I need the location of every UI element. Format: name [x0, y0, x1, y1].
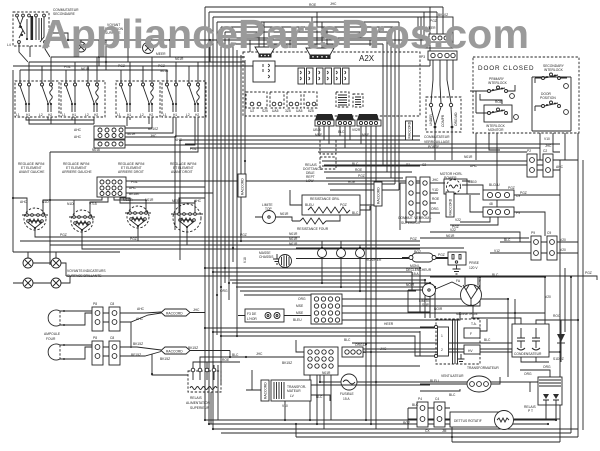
- svg-text:POSITION: POSITION: [540, 96, 556, 100]
- svg-text:L2: L2: [85, 113, 89, 117]
- svg-text:RGZ: RGZ: [403, 421, 410, 425]
- svg-text:BK15Z: BK15Z: [160, 357, 170, 361]
- wires from C9 P9: [450, 195, 560, 236]
- connector P3: [421, 51, 457, 60]
- svg-text:DETTUS ROTATIF: DETTUS ROTATIF: [454, 419, 482, 423]
- wire bus y62: [29, 61, 245, 63]
- svg-text:RACCORD: RACCORD: [264, 382, 268, 399]
- wires indicator lamps: [13, 252, 120, 283]
- svg-text:BLC: BLC: [344, 338, 351, 342]
- connector J2: [97, 177, 126, 197]
- ground chassis: [273, 254, 281, 264]
- svg-text:NOIR: NOIR: [434, 307, 443, 311]
- connector P2: [527, 149, 537, 177]
- svg-text:P2: P2: [527, 149, 531, 153]
- relay RELAIS PT: [524, 377, 562, 413]
- connector J1: [94, 126, 125, 148]
- svg-text:N01R: N01R: [289, 237, 298, 241]
- svg-text:N01R: N01R: [289, 232, 298, 236]
- svg-text:BLC: BLC: [484, 338, 491, 342]
- svg-text:C9: C9: [547, 231, 551, 235]
- svg-text:CONDENSATEUR: CONDENSATEUR: [514, 352, 542, 356]
- wires condensateur diode: [471, 318, 578, 362]
- svg-text:JHC: JHC: [256, 352, 263, 356]
- svg-text:T.A.: T.A.: [471, 322, 477, 326]
- svg-text:N01R: N01R: [322, 371, 331, 375]
- svg-text:RACCORD: RACCORD: [408, 121, 412, 138]
- svg-text:CHASSIS: CHASSIS: [259, 255, 274, 259]
- sub board dashed rect 2: [270, 92, 284, 108]
- svg-text:F3 DE: F3 DE: [247, 312, 257, 316]
- interlock monitor S4: [476, 105, 518, 132]
- diode S1DDZ: [553, 314, 565, 361]
- thermostat LIMITE SUP: [406, 282, 462, 312]
- wire center bundle verticals: [204, 7, 206, 420]
- wire drops from top bus: [99, 40, 430, 70]
- svg-text:RACCORD: RACCORD: [166, 350, 183, 354]
- svg-text:JHC: JHC: [432, 178, 439, 182]
- transformer T2 HV: [434, 319, 499, 370]
- svg-text:AHC: AHC: [136, 317, 144, 321]
- connector block J4: [304, 347, 338, 375]
- motor DETTUS ROTATIF: [450, 411, 514, 430]
- infinite switch SW4: [162, 81, 206, 117]
- svg-text:ORG: ORG: [543, 365, 551, 369]
- wires to splice lower: [120, 347, 230, 356]
- connector C4: [434, 397, 445, 427]
- svg-text:JHC: JHC: [330, 2, 337, 6]
- svg-text:ROE: ROE: [355, 168, 363, 172]
- infinite switch SW2: [61, 81, 105, 117]
- svg-text:6Z5: 6Z5: [308, 109, 314, 113]
- infinite switch SW1: [15, 81, 59, 117]
- svg-text:V20: V20: [545, 295, 551, 299]
- svg-text:BLC: BLC: [232, 353, 239, 357]
- connector C9b: [547, 231, 557, 260]
- connector strip P5: [406, 163, 426, 222]
- primary interlock S3: [470, 77, 515, 104]
- wire mid right horizontals: [322, 133, 543, 214]
- module pair 1: [298, 68, 305, 84]
- svg-text:Y1D: Y1D: [432, 188, 439, 192]
- splice RACCORD upper: [161, 309, 190, 316]
- wires switch tops to bus: [20, 57, 198, 83]
- control solid box: [253, 61, 275, 82]
- svg-text:F: F: [470, 332, 472, 336]
- svg-text:PORTE: PORTE: [428, 145, 440, 149]
- oven lamp LP1: [48, 310, 69, 326]
- svg-text:PGZ: PGZ: [585, 271, 592, 275]
- svg-text:VERROUILLAGE: VERROUILLAGE: [424, 140, 450, 144]
- svg-text:BK15Z: BK15Z: [282, 361, 292, 365]
- svg-text:RACCORD: RACCORD: [449, 198, 453, 215]
- sub board dashed rect 4: [304, 92, 317, 108]
- convection motor M2: [279, 255, 292, 268]
- svg-text:NOIR: NOIR: [406, 283, 415, 287]
- indicator lamp DS4: [51, 258, 61, 268]
- transformer T1 LV: [271, 380, 311, 401]
- svg-text:N01R: N01R: [81, 67, 90, 71]
- sub board dashed rect 1: [246, 92, 267, 108]
- svg-text:L2: L2: [39, 113, 43, 117]
- svg-text:JHC: JHC: [545, 144, 552, 148]
- svg-text:U2: U2: [250, 109, 254, 113]
- splice RACCORD control: [406, 121, 413, 140]
- svg-text:BE10Z: BE10Z: [148, 127, 158, 131]
- text module block 2: [353, 94, 363, 107]
- wires to splice upper: [120, 312, 205, 348]
- svg-text:MEER: MEER: [172, 199, 182, 203]
- wires J2 to burners: [13, 197, 205, 206]
- ground outlet: [453, 265, 461, 274]
- wire bus y249: [82, 230, 420, 249]
- svg-text:AVANT GAUCHE: AVANT GAUCHE: [19, 170, 45, 174]
- svg-text:AVANT DROIT: AVANT DROIT: [171, 170, 193, 174]
- door closed enclosure: [473, 57, 579, 133]
- wire long y276: [66, 276, 597, 280]
- svg-text:48: 48: [489, 202, 493, 206]
- vertical joins left of control: [175, 136, 180, 260]
- svg-text:PGZ: PGZ: [60, 233, 67, 237]
- magnetron V1: [456, 279, 482, 316]
- svg-text:L1: L1: [62, 113, 66, 117]
- svg-text:PGZ: PGZ: [508, 186, 515, 190]
- svg-text:BLC: BLC: [352, 162, 359, 166]
- svg-text:JM: JM: [442, 429, 447, 433]
- wires from strips down: [319, 126, 376, 429]
- svg-text:H2: H2: [94, 113, 98, 117]
- wire long lines y328-336: [205, 328, 434, 356]
- svg-text:AppliancePartsPros.com: AppliancePartsPros.com: [41, 11, 529, 57]
- connector C2: [543, 149, 553, 177]
- svg-text:L'HOR: L'HOR: [247, 317, 257, 321]
- svg-text:L1: L1: [16, 113, 20, 117]
- svg-text:AHC: AHC: [74, 135, 82, 139]
- svg-text:VENTILATEUR: VENTILATEUR: [441, 374, 464, 378]
- svg-text:BLC: BLC: [449, 393, 456, 397]
- wire S1 bottom droppers: [19, 44, 50, 63]
- wires oven resistors: [290, 190, 374, 221]
- svg-text:P8: P8: [93, 302, 97, 306]
- wires switch bottoms to connector J1: [26, 117, 198, 152]
- infinite switch SW3: [116, 81, 160, 117]
- svg-text:ORG: ORG: [220, 289, 228, 293]
- wires magnetron top: [430, 277, 545, 325]
- svg-text:V22: V22: [455, 218, 461, 222]
- svg-text:DECLENCHEUR: DECLENCHEUR: [406, 268, 432, 272]
- splice box RACCORD vertical left: [238, 174, 246, 197]
- clock display connector 1: [255, 47, 275, 58]
- wire BLC to capacitor: [420, 307, 513, 357]
- svg-text:ORG MD: ORG MD: [454, 112, 458, 126]
- connector strip CN2: [336, 114, 355, 126]
- wires P3 down: [431, 60, 453, 103]
- svg-text:N01R: N01R: [127, 132, 136, 136]
- svg-text:N01R: N01R: [160, 69, 169, 73]
- svg-text:AHC: AHC: [470, 164, 478, 168]
- connector C8 upper: [109, 302, 120, 331]
- svg-text:H2: H2: [195, 113, 199, 117]
- svg-text:L1: L1: [117, 113, 121, 117]
- svg-text:ORG: ORG: [298, 297, 306, 301]
- resistor RESISTANCE GRIL: [302, 195, 360, 215]
- wires from display connectors up: [259, 12, 327, 48]
- svg-text:AHC: AHC: [137, 307, 145, 311]
- svg-text:FOUR: FOUR: [46, 337, 56, 341]
- secondary switch block S1: [13, 12, 49, 46]
- connector row J5: [342, 347, 363, 357]
- burner element E1: [20, 200, 49, 230]
- fan VENTILATEUR: [430, 374, 491, 397]
- wires transformer: [246, 370, 430, 420]
- svg-text:C2: C2: [422, 163, 426, 167]
- svg-text:JHC: JHC: [150, 134, 157, 138]
- svg-text:V12: V12: [494, 249, 500, 253]
- module pair 3: [334, 68, 341, 84]
- svg-text:VOYANTS INDICATEURS: VOYANTS INDICATEURS: [67, 269, 106, 273]
- svg-text:H1: H1: [26, 113, 30, 117]
- svg-text:UA5: UA5: [296, 109, 303, 113]
- svg-text:P8: P8: [93, 336, 97, 340]
- svg-text:V10: V10: [544, 137, 550, 141]
- ground transformer: [458, 354, 465, 364]
- wire FS to J3: [238, 315, 311, 317]
- svg-text:1: 1: [441, 334, 443, 338]
- svg-text:BLC: BLC: [352, 211, 359, 215]
- svg-text:BLEU: BLEU: [430, 379, 439, 383]
- svg-text:N01R: N01R: [280, 212, 289, 216]
- indicator lamp DS6: [51, 278, 61, 288]
- svg-text:PRISE: PRISE: [469, 261, 480, 265]
- svg-text:RACCORD: RACCORD: [166, 312, 183, 316]
- indicator lamp DS5: [23, 278, 33, 288]
- svg-text:RACCORD: RACCORD: [241, 178, 245, 195]
- wire mid buses y268 y272: [205, 268, 425, 318]
- svg-text:COMMUTATEUR: COMMUTATEUR: [424, 135, 450, 139]
- svg-text:N01R: N01R: [289, 242, 298, 246]
- clock motor M1: [440, 172, 467, 194]
- svg-text:15 A: 15 A: [412, 272, 419, 276]
- svg-text:LOW: LOW: [306, 179, 314, 183]
- connector C8 lower: [109, 336, 120, 365]
- wires P2C2: [537, 160, 578, 170]
- wires relais PT: [520, 370, 556, 420]
- wire burner drops: [138, 226, 187, 245]
- svg-text:JHC: JHC: [193, 308, 200, 312]
- svg-text:H1: H1: [173, 113, 177, 117]
- svg-text:SUPERIEUR: SUPERIEUR: [401, 221, 421, 225]
- thermostat LIMITE TOP: [255, 203, 292, 224]
- svg-text:DOOR CLOSED: DOOR CLOSED: [478, 65, 534, 72]
- svg-text:C8: C8: [110, 336, 114, 340]
- relay RELAIS ALIMENTATION dashed: [188, 368, 221, 392]
- wire bus y57: [51, 56, 245, 58]
- connector P4: [417, 397, 428, 427]
- svg-text:AMPOULE: AMPOULE: [44, 332, 61, 336]
- clock display connector 2: [306, 48, 334, 59]
- svg-text:RESISTANCE GRIL: RESISTANCE GRIL: [310, 197, 340, 201]
- svg-text:N1D: N1D: [67, 202, 74, 206]
- door position S6: [535, 92, 568, 114]
- svg-text:C2: C2: [543, 149, 547, 153]
- connector P8 lower: [92, 336, 103, 365]
- svg-text:V22: V22: [450, 228, 456, 232]
- svg-text:15 A: 15 A: [343, 397, 350, 401]
- svg-text:L4: L4: [7, 43, 11, 47]
- svg-text:BE15Z: BE15Z: [131, 353, 141, 357]
- svg-text:L1: L1: [163, 113, 167, 117]
- wire nested tops to control box: [205, 7, 443, 44]
- svg-text:ORG: ORG: [431, 207, 439, 211]
- svg-text:MONITOR: MONITOR: [488, 128, 504, 132]
- svg-text:MSE: MSE: [296, 304, 304, 308]
- wires fan: [420, 377, 500, 391]
- svg-text:COMMUT. VERROUIL.: COMMUT. VERROUIL.: [398, 216, 432, 220]
- svg-text:N01R: N01R: [446, 234, 455, 238]
- fuse FUSIBLE 15A: [322, 371, 357, 401]
- wires P9b C9b: [490, 242, 578, 253]
- svg-text:UA5: UA5: [272, 109, 279, 113]
- svg-text:MSE: MSE: [296, 311, 304, 315]
- wire bus y70: [20, 69, 167, 71]
- connector mini: [429, 34, 451, 42]
- svg-text:F: F: [479, 279, 481, 283]
- wire left rail: [13, 70, 50, 265]
- wire from S1 to top bus: [49, 33, 68, 40]
- connector C9: [483, 190, 520, 200]
- svg-text:PGZ: PGZ: [410, 237, 417, 241]
- svg-text:MB10: MB10: [468, 180, 477, 184]
- wires mid right y232 y238: [420, 232, 529, 242]
- svg-text:RESISTANCE FOUR: RESISTANCE FOUR: [297, 227, 329, 231]
- svg-text:MATEUR: MATEUR: [287, 389, 301, 393]
- svg-text:AHC: AHC: [194, 199, 202, 203]
- svg-text:V20: V20: [560, 248, 566, 252]
- svg-text:ARRIERE DROIT: ARRIERE DROIT: [118, 170, 144, 174]
- wires dettus: [452, 419, 560, 437]
- wires P4C4: [408, 408, 450, 429]
- svg-text:JHC: JHC: [380, 347, 387, 351]
- burner element E3: [123, 198, 154, 228]
- svg-text:N01R: N01R: [175, 57, 184, 61]
- door lock switch S2: [426, 97, 461, 160]
- resistor RESISTANCE FOUR: [297, 218, 329, 231]
- burner element E4: [171, 199, 203, 232]
- svg-text:BLC: BLC: [316, 395, 323, 399]
- svg-text:PGZ: PGZ: [158, 64, 165, 68]
- svg-text:L2: L2: [186, 113, 190, 117]
- svg-text:PGZ: PGZ: [340, 203, 347, 207]
- svg-text:BLEU: BLEU: [305, 203, 314, 207]
- top right mini box: [421, 17, 453, 48]
- connector block J3: [311, 294, 342, 324]
- svg-text:ROE: ROE: [222, 358, 230, 362]
- svg-text:SUPERIEUR: SUPERIEUR: [190, 406, 210, 410]
- relay contacts K1: [296, 241, 464, 291]
- svg-text:AHC: AHC: [556, 165, 564, 169]
- svg-text:RELAIS: RELAIS: [190, 396, 203, 400]
- splice RACCORD mid: [446, 192, 454, 217]
- svg-text:ROMPIER: ROMPIER: [366, 258, 382, 262]
- connector strip CN3: [357, 114, 381, 126]
- svg-text:CX: CX: [425, 429, 430, 433]
- relay sub box: [320, 140, 336, 154]
- lamp DS1: [76, 40, 86, 52]
- svg-text:C8: C8: [110, 302, 114, 306]
- svg-text:BLC: BLC: [492, 273, 499, 277]
- secondary interlock S5: [535, 64, 568, 88]
- svg-text:ROE: ROE: [432, 197, 440, 201]
- svg-text:BLCLU: BLCLU: [489, 183, 500, 187]
- wire bottom long lines: [205, 420, 578, 433]
- svg-text:C4: C4: [435, 397, 439, 401]
- svg-text:P4: P4: [418, 397, 422, 401]
- svg-text:2: 2: [441, 348, 443, 352]
- wire bus y241: [20, 240, 420, 242]
- svg-text:ORG: ORG: [524, 372, 532, 376]
- splice RACCORD transformer: [261, 380, 269, 401]
- svg-text:RACCORD: RACCORD: [377, 187, 381, 204]
- svg-text:ARRIERE GAUCHE: ARRIERE GAUCHE: [62, 170, 92, 174]
- wires oven lamps to connectors: [69, 311, 109, 359]
- burner element E2: [67, 202, 97, 232]
- svg-text:L2: L2: [140, 113, 144, 117]
- svg-text:120 V: 120 V: [469, 266, 478, 270]
- breaker MINI-DECLENCHEUR: [402, 253, 448, 262]
- svg-text:HV: HV: [468, 349, 473, 353]
- wires J4 area: [246, 340, 560, 429]
- lamp DS2: [143, 40, 154, 54]
- inner frame door box: [476, 77, 571, 131]
- wires org12: [352, 343, 540, 349]
- svg-text:TRANSFORMATEUR: TRANSFORMATEUR: [467, 366, 499, 370]
- connector P8 upper: [92, 302, 103, 331]
- svg-text:PGZ: PGZ: [118, 64, 125, 68]
- svg-text:ROC: ROC: [553, 314, 561, 318]
- connector strip C5: [420, 177, 430, 222]
- wires relay to right: [322, 166, 420, 190]
- svg-text:INTERLOCK: INTERLOCK: [544, 68, 564, 72]
- wire fan right of strips: [383, 22, 399, 190]
- wire top bus y40: [68, 39, 430, 41]
- svg-text:COMPR: COMPR: [441, 114, 445, 127]
- fuse of clock box: [245, 309, 284, 322]
- svg-text:SUP: SUP: [422, 303, 430, 307]
- text module block 1: [336, 92, 349, 107]
- svg-text:AHC: AHC: [20, 200, 28, 204]
- wire bus y245: [50, 244, 420, 246]
- svg-text:N016: N016: [92, 148, 100, 152]
- svg-text:BLC: BLC: [412, 403, 419, 407]
- wire bus under burners y237: [35, 228, 300, 237]
- indicator lamp DS3: [23, 258, 33, 268]
- splice RACCORD lower: [161, 347, 190, 354]
- wires below door box: [476, 133, 565, 160]
- svg-text:PGZ: PGZ: [438, 253, 445, 257]
- svg-text:H2: H2: [149, 113, 153, 117]
- svg-text:3Z5: 3Z5: [285, 109, 291, 113]
- svg-text:PGZ: PGZ: [358, 174, 365, 178]
- wire lower bundle: [232, 283, 435, 318]
- svg-text:V18: V18: [243, 257, 247, 263]
- wire right rails: [560, 133, 583, 437]
- svg-text:BK15Z: BK15Z: [188, 346, 198, 350]
- svg-text:BLC: BLC: [504, 238, 511, 242]
- svg-text:V02R: V02R: [352, 128, 361, 132]
- svg-text:BK15Z: BK15Z: [133, 342, 143, 346]
- svg-text:UB10: UB10: [313, 128, 321, 132]
- wires fuse: [320, 375, 560, 382]
